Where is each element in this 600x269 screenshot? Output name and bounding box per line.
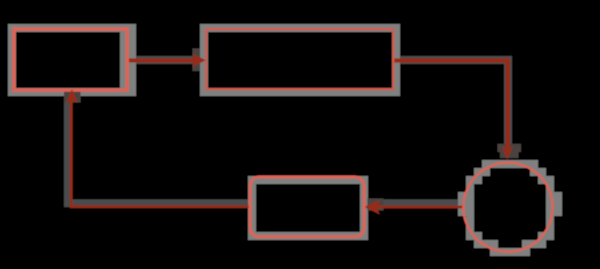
wire: rounded box to left corner [70, 205, 250, 208]
wire halo: box1 to box2 [132, 56, 196, 64]
wire: box1 to box2 [129, 58, 199, 62]
arrowhead halo into box2 [192, 48, 200, 71]
arrowhead halo into rounded box [368, 199, 384, 211]
node halo ring: box1 [8, 24, 136, 96]
arrowhead into box1 [66, 89, 78, 103]
node halo ring: circle (pixelated) [458, 160, 562, 256]
wire: box2 rightward [394, 58, 510, 62]
box2 (top-right rectangle) [206, 29, 393, 89]
wire halo: box2 to corner [396, 56, 512, 64]
wire halo: circle to rounded box [368, 199, 464, 207]
arrowhead halo into circle lower part [500, 152, 519, 158]
box1 (top-left rectangle) [14, 29, 127, 90]
arrowhead into circle [502, 146, 513, 159]
circle (bottom right) [463, 163, 552, 252]
arrowhead into rounded box [365, 200, 380, 215]
wire: circle to rounded box [366, 206, 463, 209]
arrowhead into box2 [192, 54, 206, 67]
rounded box (bottom) [250, 177, 364, 237]
wire halo: left corner up to box1 [64, 100, 72, 202]
wire halo: rounded box to left corner [64, 199, 252, 207]
wire: up to box1 [70, 100, 73, 208]
arrowhead halo into circle [498, 144, 522, 152]
wire: down to circle [506, 58, 510, 150]
arrowhead halo into box1 [64, 91, 81, 103]
wire halo: corner down to circle [504, 60, 512, 148]
node halo ring: box2 [200, 24, 400, 96]
node halo ring: rounded box [248, 176, 368, 240]
